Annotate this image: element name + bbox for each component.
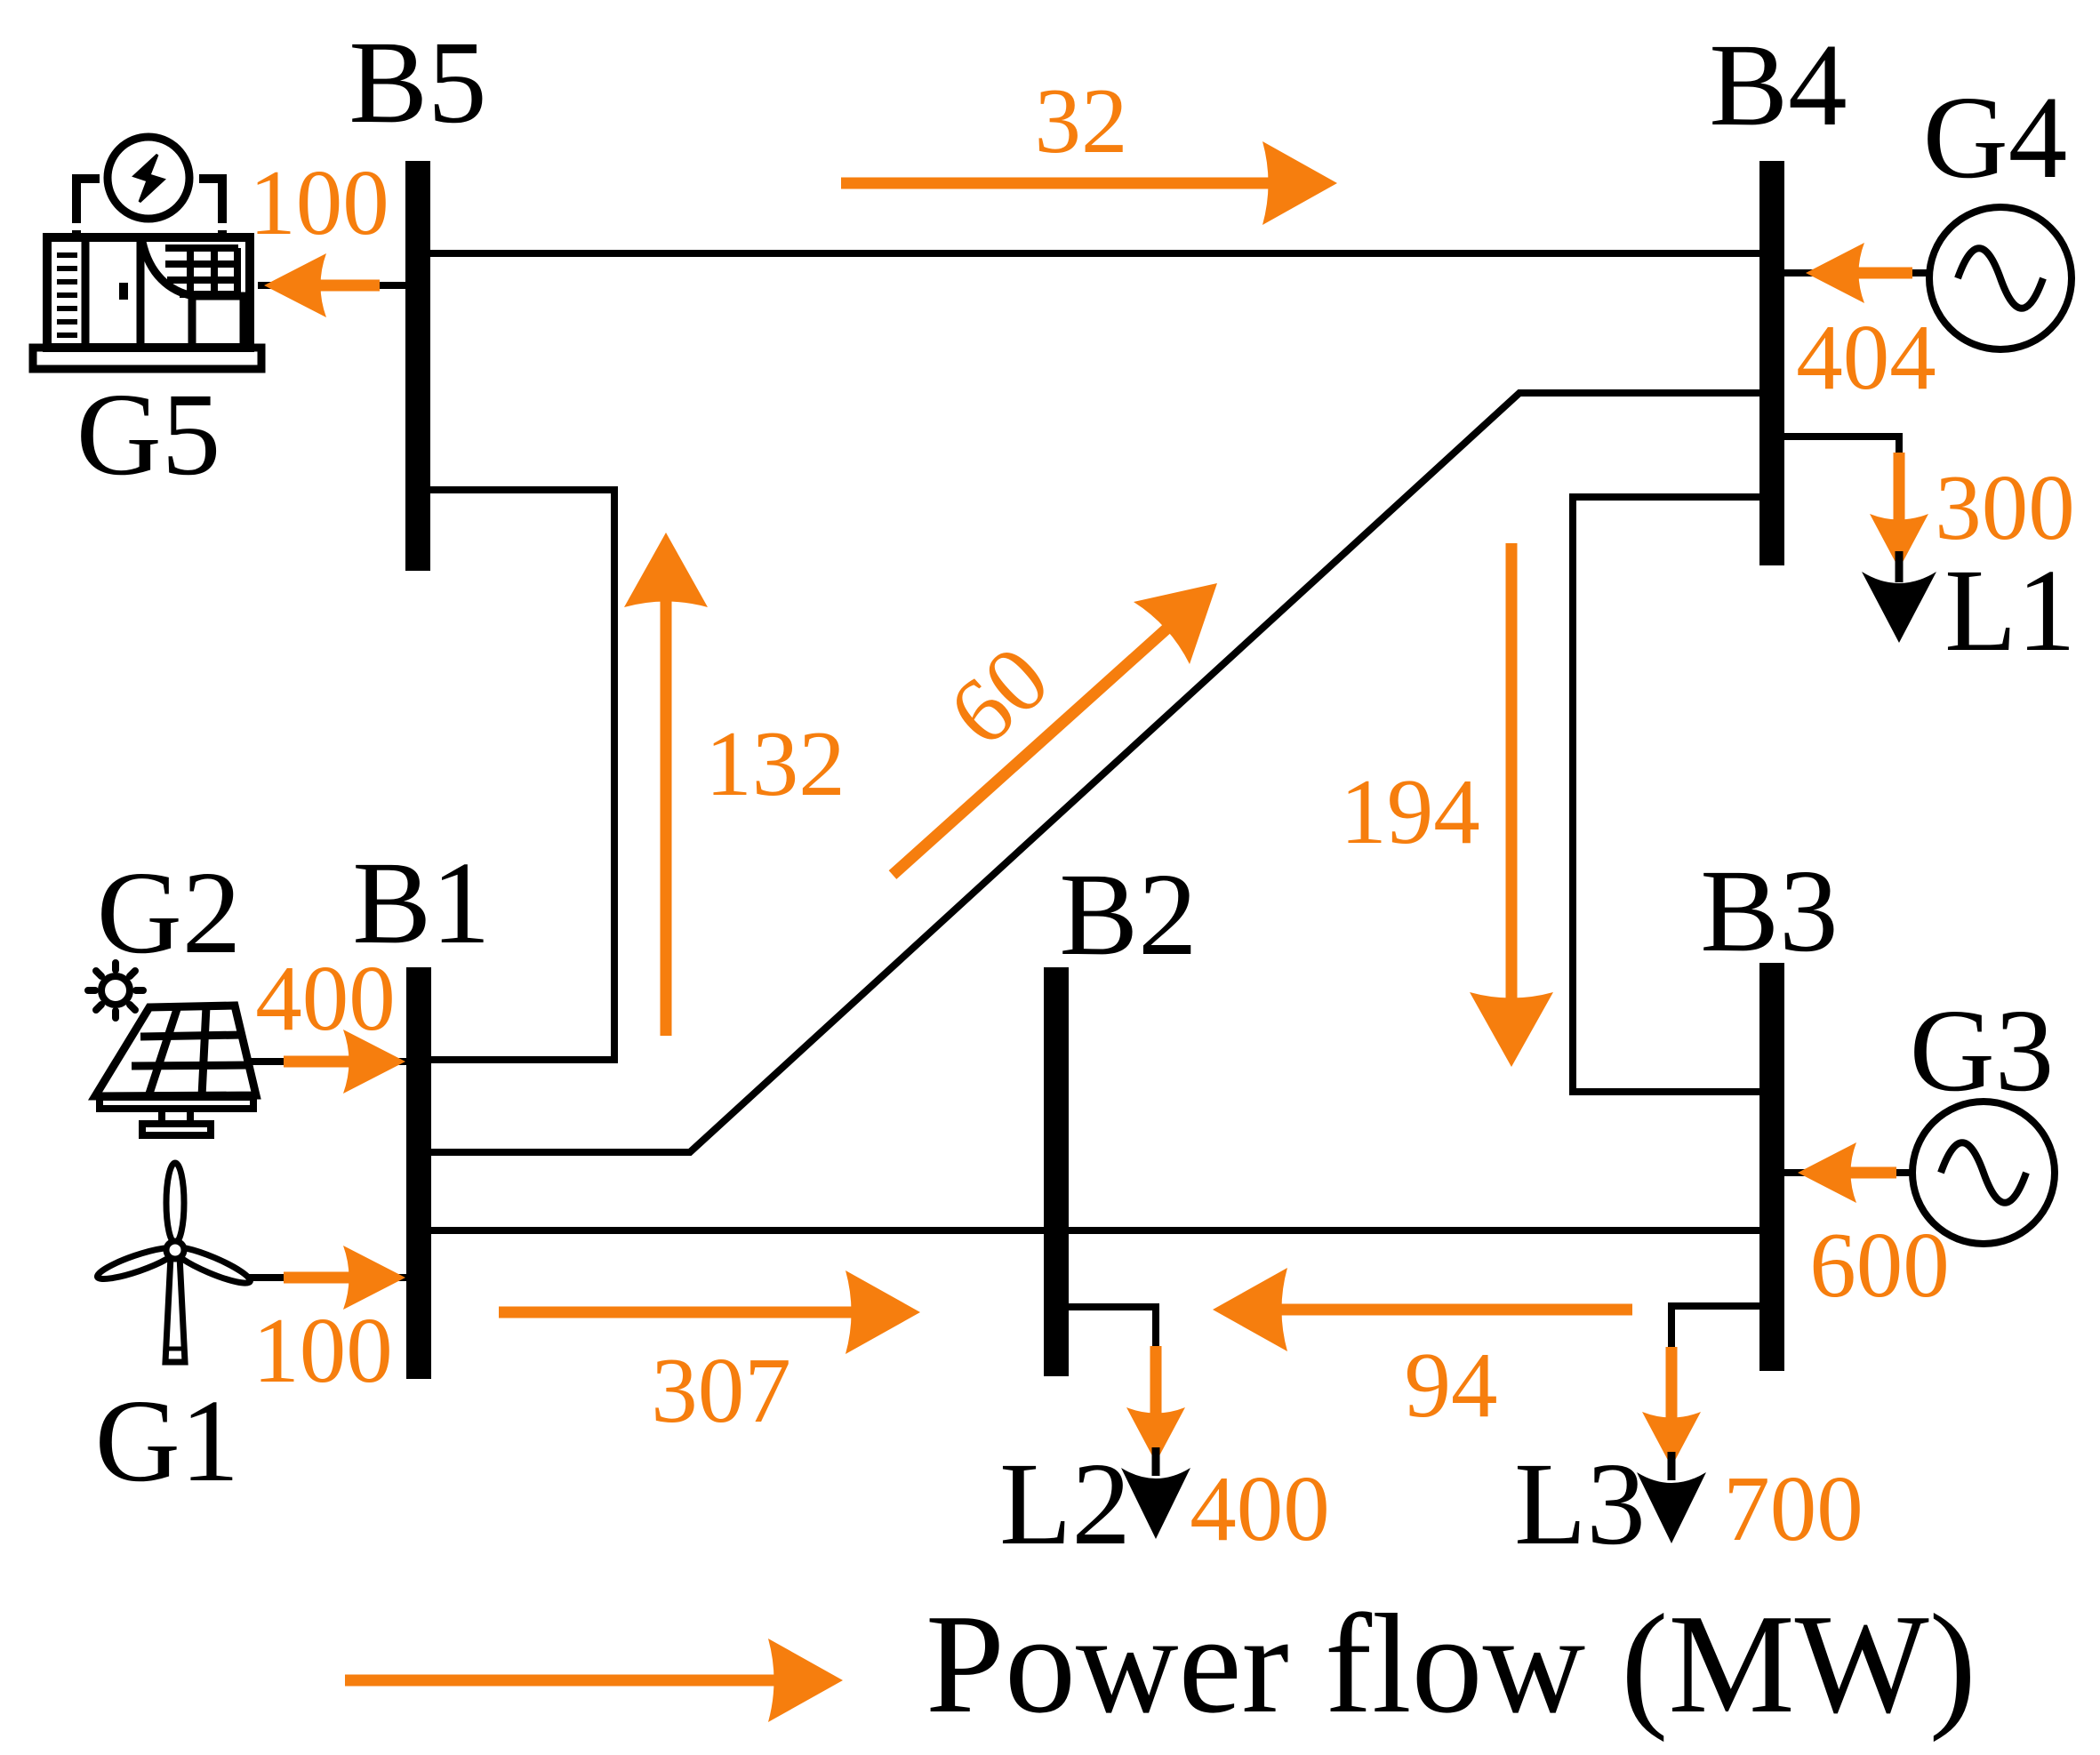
wire B1-B4 diagonal [418,393,1772,1152]
generator G1 wind turbine icon [95,1163,253,1362]
svg-text:B2: B2 [1059,848,1197,980]
svg-text:100: 100 [252,1298,393,1402]
wire G4 to B4 [1772,269,1929,276]
svg-text:300: 300 [1935,455,2075,559]
legend arrow [345,1675,781,1687]
wire B4 to load L1 [1772,437,1899,471]
load flow arrow 300 at L1 [1894,453,1905,526]
svg-text:94: 94 [1405,1333,1498,1437]
generator G3 symbol [1912,1102,2055,1244]
bus B1 [406,967,431,1379]
svg-text:G1: G1 [95,1374,240,1506]
flow arrow 94 (B3 to B2) [1275,1304,1632,1316]
svg-text:L1: L1 [1944,544,2076,676]
load L1 black arrow [1862,551,1936,643]
flow arrow 132 (B1 to B5) [661,595,672,1036]
generator G4 symbol [1929,207,2072,349]
svg-text:L2: L2 [999,1438,1131,1569]
flow arrow 307 (B1 to B2) [499,1307,858,1318]
bus B4 [1759,161,1784,565]
generator G2 solar icon [88,963,256,1135]
load flow arrow 400 at L2 [1150,1346,1162,1420]
flow arrow 400 from G2 [284,1056,356,1068]
bus B5 [405,161,430,571]
svg-text:B4: B4 [1709,19,1847,150]
wire B3 to load L3 [1671,1306,1772,1360]
bus B2 [1044,967,1069,1376]
bus B3 [1759,963,1784,1371]
generator G5 power plant icon [33,137,261,369]
flow arrow 194 (B4 to B3) [1506,543,1518,1005]
wire B5-B4 [418,250,1772,257]
flow arrow 60 (B1 to B4) [893,625,1171,875]
flow arrow 600 from G3 [1844,1167,1896,1179]
svg-text:L3: L3 [1514,1438,1646,1569]
flow arrow 404 from G4 [1852,268,1912,279]
svg-text:404: 404 [1796,305,1936,409]
flow arrow 100 from G1 [284,1272,356,1284]
svg-text:400: 400 [255,946,396,1050]
svg-text:307: 307 [651,1338,791,1442]
svg-text:32: 32 [1035,68,1128,172]
load L3 black arrow [1637,1452,1706,1543]
wire B2 to load L2 [1056,1307,1156,1360]
svg-text:400: 400 [1190,1456,1330,1560]
wire G5 to B5 [258,282,418,289]
wire G2 to B1 [249,1058,418,1065]
wire G1 to B1 [240,1274,418,1281]
wire B5-B1 [418,490,614,1060]
svg-text:B5: B5 [349,16,486,148]
svg-text:G4: G4 [1923,71,2068,203]
svg-text:132: 132 [705,711,846,815]
wire B1-B2-B3 [418,1227,1772,1234]
svg-text:G5: G5 [76,368,221,500]
svg-text:100: 100 [249,150,389,254]
flow arrow 100 into G5 [314,280,380,292]
svg-text:G3: G3 [1910,984,2055,1116]
load L2 black arrow [1121,1447,1190,1539]
flow arrow 32 (B5 to B4) [841,178,1275,189]
svg-text:B3: B3 [1700,845,1838,976]
wire G3 to B3 [1772,1169,1912,1176]
svg-text:600: 600 [1809,1213,1950,1317]
wire B4-B3 [1573,497,1772,1092]
svg-text:G2: G2 [97,846,242,978]
svg-text:Power flow (MW): Power flow (MW) [926,1584,1976,1743]
load flow arrow 700 at L3 [1666,1347,1678,1424]
svg-text:700: 700 [1723,1456,1864,1560]
svg-text:194: 194 [1340,759,1480,863]
